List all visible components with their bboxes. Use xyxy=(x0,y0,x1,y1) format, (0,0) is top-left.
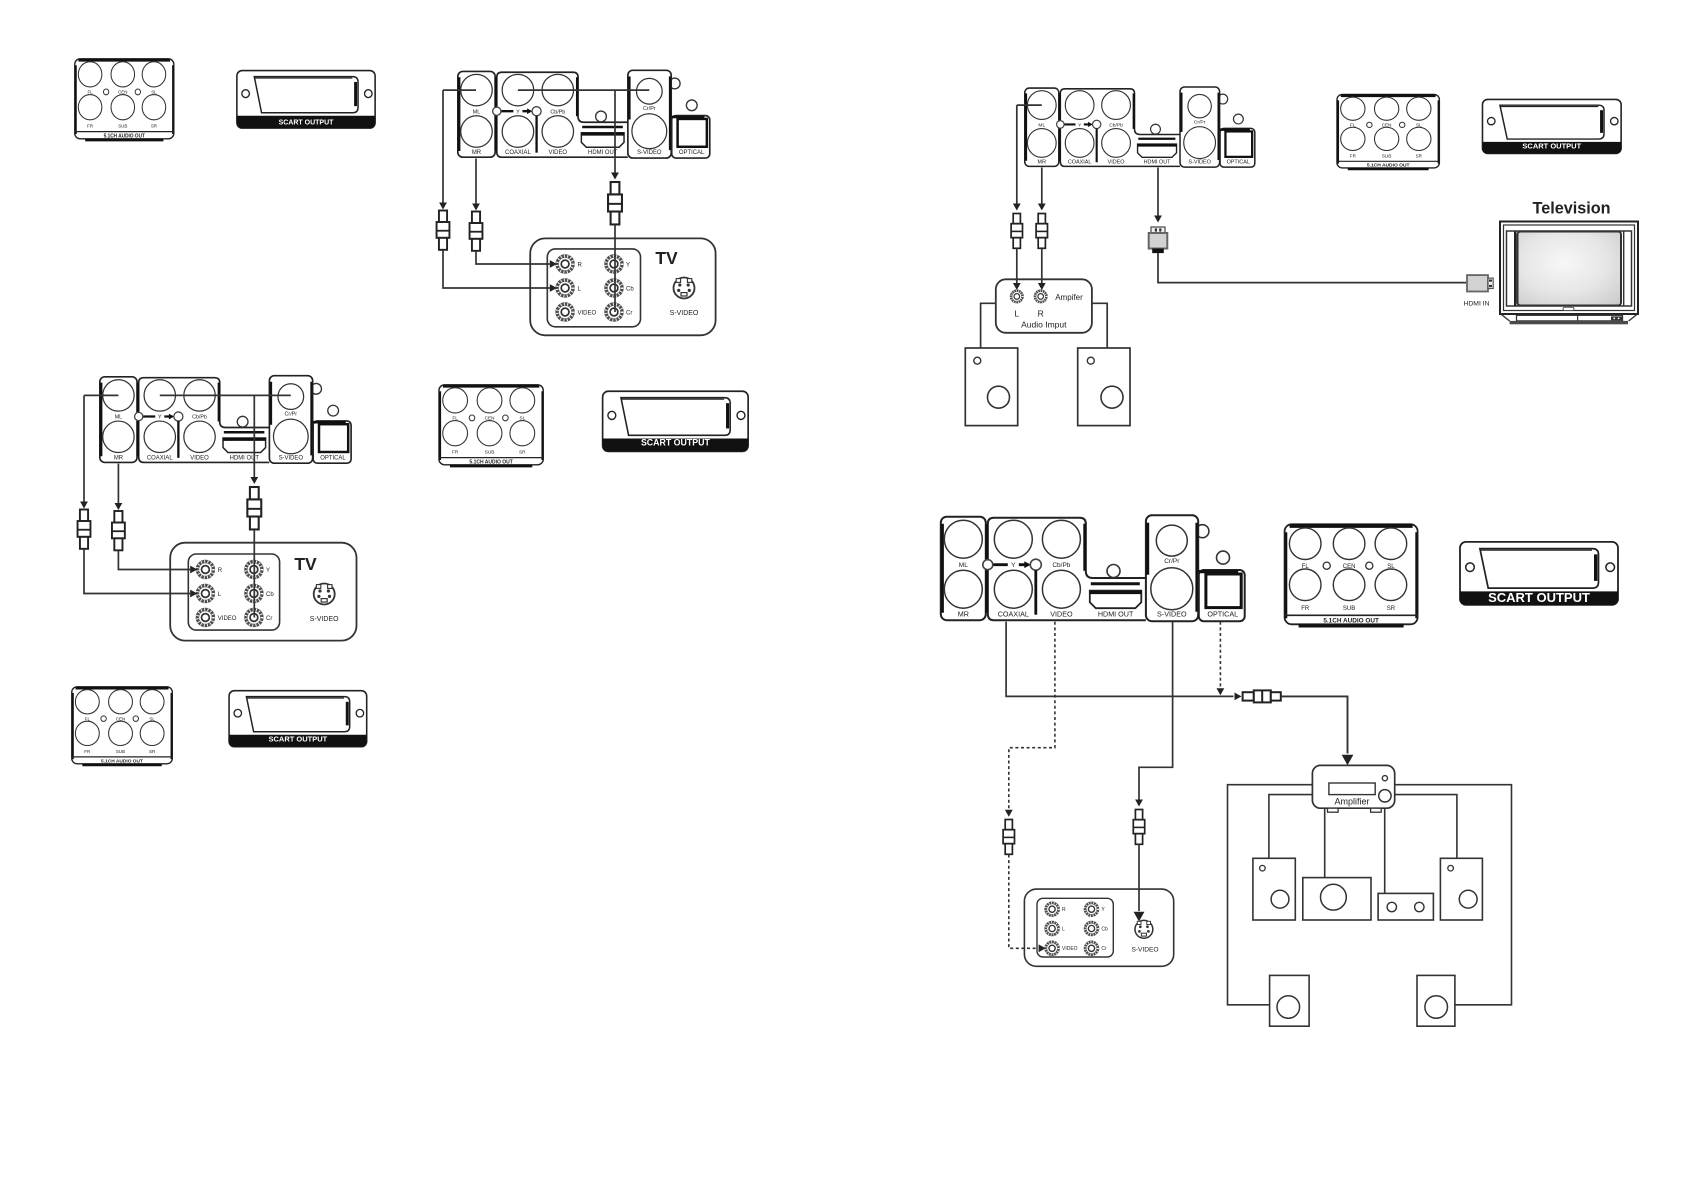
wire ML horizontal P3 xyxy=(1017,104,1042,106)
rca plug on component cable P2 xyxy=(247,487,261,529)
svg-text:SCART OUTPUT: SCART OUTPUT xyxy=(1488,590,1590,605)
svg-text:Cr: Cr xyxy=(1101,946,1107,952)
TV2 s-video connector xyxy=(314,584,335,605)
svg-text:Y: Y xyxy=(626,262,630,268)
TV1 jack R xyxy=(557,256,573,272)
TV2 jack labels xyxy=(218,568,275,622)
svg-text:TV: TV xyxy=(294,554,317,574)
television set xyxy=(1500,222,1638,325)
wire video cable P4 (dashed, to TV video) xyxy=(1009,622,1055,810)
wire coaxial cable P4 to amplifier xyxy=(1006,622,1233,697)
svg-text:SCART OUTPUT: SCART OUTPUT xyxy=(279,120,335,127)
scart output block C (left bottom) xyxy=(229,691,367,747)
TV3 jack Cr xyxy=(1085,942,1098,955)
wire audio right cable P2 (MR to TV R) xyxy=(117,464,119,503)
svg-text:SCART OUTPUT: SCART OUTPUT xyxy=(641,438,711,448)
hdmi plug on cable xyxy=(1149,227,1168,253)
wire ML horizontal P1 xyxy=(443,89,476,91)
svg-text:Cb: Cb xyxy=(266,592,274,598)
TV2 jack Cr xyxy=(246,610,262,626)
rca plug on MR cable P3 xyxy=(1036,214,1047,249)
wire optical cable P4 (dashed) xyxy=(1219,622,1221,689)
5.1ch audio out block C (left bottom) xyxy=(72,687,173,765)
TV box 1 (top middle) xyxy=(530,238,715,335)
TV2 jack R xyxy=(197,562,213,578)
svg-text:S-VIDEO: S-VIDEO xyxy=(670,310,699,317)
5.1ch audio out block A (top left) xyxy=(75,59,174,140)
5.1ch audio out block E (right middle) xyxy=(1285,524,1418,626)
TV2 jack Cb xyxy=(246,586,262,602)
svg-text:S-VIDEO: S-VIDEO xyxy=(1131,947,1158,954)
wire amplifier to center speaker xyxy=(1324,808,1326,877)
center speaker xyxy=(1303,878,1371,920)
rca plug on component cable P1 xyxy=(608,182,622,224)
TV2 jack L xyxy=(197,586,213,602)
TV box 3 (bottom, small) xyxy=(1024,889,1173,966)
wire amplifier to subwoofer xyxy=(1384,808,1386,893)
wire amplifier outer loop right (to rear right speaker) xyxy=(1395,785,1512,1005)
wire Y to Cr/Pr horizontal P2 xyxy=(160,394,291,396)
rca plug on ML cable P3 xyxy=(1011,214,1022,249)
scart output block A (top left) xyxy=(237,71,375,129)
subwoofer xyxy=(1378,893,1433,920)
TV3 jack R xyxy=(1046,903,1059,916)
svg-text:VIDEO: VIDEO xyxy=(1062,946,1078,952)
svg-text:TV: TV xyxy=(655,248,678,268)
TV3 jack L xyxy=(1046,922,1059,935)
svg-text:Cb: Cb xyxy=(626,286,634,292)
scart output block B (middle) xyxy=(603,391,749,451)
5.1ch audio out block D (right top) xyxy=(1337,94,1439,169)
svg-text:VIDEO: VIDEO xyxy=(218,616,237,622)
TV1 s-video connector xyxy=(674,278,695,299)
hdmi plug at television xyxy=(1467,275,1493,291)
wire amplifier to front right speaker xyxy=(1395,795,1457,859)
wire component cable P1 (to TV Cr) xyxy=(614,90,616,172)
scart output block D (right top) xyxy=(1482,99,1621,153)
wire amplifier to front left speaker xyxy=(1269,795,1313,859)
rca plug on video cable xyxy=(1003,820,1014,855)
wire amplifier outer loop left (to rear left speaker) xyxy=(1228,785,1313,1005)
svg-text:Amplifier: Amplifier xyxy=(1334,797,1369,807)
rear panel P3 (right top) xyxy=(1025,87,1255,167)
svg-text:VIDEO: VIDEO xyxy=(578,310,597,316)
coaxial inline adapter xyxy=(1243,690,1281,702)
wire audio left cable P2 (ML to TV L) xyxy=(83,395,85,501)
svg-text:SCART OUTPUT: SCART OUTPUT xyxy=(1522,141,1581,150)
TV1 jack Cr xyxy=(606,304,622,320)
wire amplifier to left speaker xyxy=(981,303,996,348)
rca plug on MR cable P2 xyxy=(112,511,125,550)
svg-text:L: L xyxy=(1062,926,1065,932)
TV3 s-video connector xyxy=(1135,920,1153,938)
wire HDMI cable P3 to television xyxy=(1157,168,1159,217)
svg-text:R: R xyxy=(578,262,583,268)
svg-text:R: R xyxy=(1062,907,1066,913)
svg-text:Cb: Cb xyxy=(1101,926,1108,932)
svg-text:SCART OUTPUT: SCART OUTPUT xyxy=(269,734,328,743)
svg-text:L: L xyxy=(1014,309,1019,319)
rear panel P2 (left middle) xyxy=(100,376,351,464)
wire ML horizontal P2 xyxy=(84,394,118,396)
amplifier box 2 (5.1 amplifier) xyxy=(1312,765,1394,812)
rear left speaker xyxy=(1270,975,1310,1026)
wire audio left cable P3 (ML to amplifier L) xyxy=(1016,105,1018,203)
rca plug on s-video cable xyxy=(1133,810,1144,845)
wire amplifier to right speaker xyxy=(1092,303,1107,348)
wire Y to Cr/Pr horizontal P1 xyxy=(518,89,649,91)
wire s-video cable P4 to TV xyxy=(1139,622,1173,800)
TV1 jack L xyxy=(557,280,573,296)
5.1ch audio out block B (middle) xyxy=(439,385,543,466)
svg-text:Ampifer: Ampifer xyxy=(1055,293,1083,302)
amplifier jack R xyxy=(1035,291,1047,303)
svg-text:Cr: Cr xyxy=(266,616,272,622)
svg-text:R: R xyxy=(1038,309,1044,319)
wire audio left cable P1 (ML to TV L) xyxy=(442,90,444,202)
TV1 jack labels xyxy=(578,262,635,316)
TV1 jack Cb xyxy=(606,280,622,296)
TV3 jack Cb xyxy=(1085,922,1098,935)
rca plug on ML cable P1 xyxy=(437,211,450,250)
left stereo speaker xyxy=(965,348,1017,426)
TV2 jack VIDEO xyxy=(197,610,213,626)
front left speaker xyxy=(1253,858,1295,920)
wire audio right cable P3 (MR to amplifier R) xyxy=(1041,168,1043,204)
amplifier jack L xyxy=(1011,291,1023,303)
TV1 jack Y xyxy=(606,256,622,272)
right stereo speaker xyxy=(1078,348,1130,426)
svg-text:S-VIDEO: S-VIDEO xyxy=(310,616,339,623)
TV3 jack VIDEO xyxy=(1046,942,1059,955)
svg-text:Audio Imput: Audio Imput xyxy=(1021,320,1067,330)
TV box 2 (left middle) xyxy=(170,543,356,641)
svg-text:R: R xyxy=(218,568,223,574)
scart output block E (right middle) xyxy=(1460,542,1618,605)
rca plug on ML cable P2 xyxy=(78,510,91,549)
TV3 jack Y xyxy=(1085,903,1098,916)
wire audio right cable P1 (MR to TV R) xyxy=(475,159,477,204)
wire component cable P2 (to TV Cr) xyxy=(253,395,255,477)
svg-text:HDMI IN: HDMI IN xyxy=(1463,301,1489,308)
rear panel P1 (top middle) xyxy=(458,70,710,158)
rear right speaker xyxy=(1417,975,1455,1026)
rear panel P4 (right bottom) xyxy=(941,515,1245,621)
TV3 jack labels xyxy=(1062,907,1108,952)
svg-text:Television: Television xyxy=(1533,200,1611,218)
rca plug on MR cable P1 xyxy=(470,212,483,251)
svg-text:Y: Y xyxy=(266,568,270,574)
amplifier box (audio input) xyxy=(996,279,1092,333)
TV1 jack VIDEO xyxy=(557,304,573,320)
TV2 jack Y xyxy=(246,562,262,578)
front right speaker xyxy=(1440,858,1482,920)
svg-text:Cr: Cr xyxy=(626,310,632,316)
